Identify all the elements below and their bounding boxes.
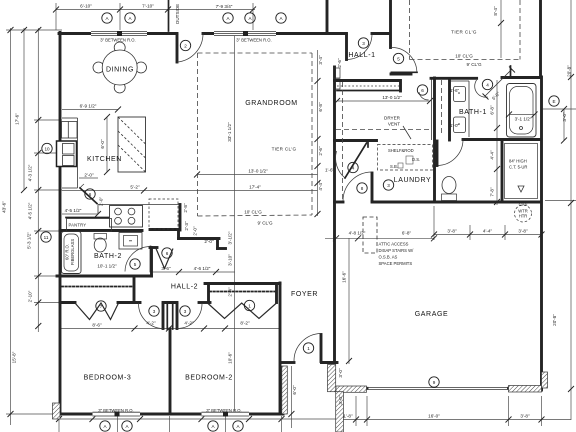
- svg-text:2'-0": 2'-0": [99, 197, 104, 207]
- svg-text:8'-4": 8'-4": [493, 6, 498, 16]
- svg-text:4'-2": 4'-2": [184, 321, 194, 326]
- svg-text:VENT: VENT: [388, 122, 400, 127]
- shower walls: [501, 141, 504, 203]
- svg-text:6'-8": 6'-8": [318, 102, 323, 112]
- 17'-4" line: [62, 190, 318, 192]
- svg-text:20'-8": 20'-8": [552, 314, 557, 326]
- svg-text:4'-5 1/2": 4'-5 1/2": [65, 208, 82, 213]
- dining table: [102, 50, 137, 85]
- door 3 bedroom-3: [162, 304, 165, 329]
- svg-text:3'-6": 3'-6": [161, 266, 171, 271]
- range 4 burners: [110, 206, 143, 228]
- svg-text:2'-10": 2'-10": [28, 290, 33, 302]
- svg-text:O.S.B. AS: O.S.B. AS: [379, 255, 398, 260]
- hall-1 13'-0 1/2" line: [337, 100, 430, 102]
- svg-text:7'-9 3/4": 7'-9 3/4": [216, 4, 233, 9]
- right exterior wall of bath/garage: [540, 77, 543, 390]
- kitchen island: [118, 117, 146, 172]
- top dim line: [56, 9, 255, 11]
- svg-text:KITCHEN: KITCHEN: [87, 156, 122, 163]
- svg-text:10'-1 1/2": 10'-1 1/2": [97, 264, 117, 269]
- garage mid dim line: [434, 234, 542, 236]
- foyer south wall: [282, 361, 295, 364]
- svg-text:9' CL'G: 9' CL'G: [257, 221, 272, 226]
- porch door dim line: [290, 366, 292, 428]
- door 5 bath-2: [125, 247, 151, 272]
- shower drain: [518, 186, 524, 192]
- laundry north walls: [335, 79, 401, 82]
- svg-text:3'-0": 3'-0": [338, 395, 343, 405]
- svg-text:BEDROOM-3: BEDROOM-3: [84, 375, 132, 382]
- bath-1 vanity: [448, 79, 451, 140]
- hall-1 walls: [326, 0, 329, 33]
- bath-2 south wall: [57, 275, 152, 278]
- svg-text:2'-3": 2'-3": [184, 221, 189, 231]
- svg-text:7'-8": 7'-8": [490, 187, 495, 197]
- svg-text:10'-6": 10'-6": [228, 352, 233, 364]
- door 1 front entry foyer: [320, 335, 323, 362]
- svg-text:HALL-1: HALL-1: [348, 52, 375, 59]
- pantry box: [67, 219, 112, 232]
- svg-text:2'-6": 2'-6": [318, 146, 323, 156]
- svg-text:6: 6: [166, 251, 169, 256]
- svg-text:17'-6": 17'-6": [15, 113, 20, 125]
- svg-text:4'-4": 4'-4": [490, 150, 495, 160]
- grandroom/garage divider wall: [333, 67, 336, 363]
- kitchen bottom counter: [98, 204, 180, 206]
- door 5 hall-1 east: [391, 71, 417, 73]
- tier ceiling dashed rectangle grandroom: [198, 52, 313, 54]
- door 4 bath-1 diagonal: [475, 80, 488, 97]
- svg-text:1'-0": 1'-0": [450, 123, 460, 128]
- svg-text:2'-6": 2'-6": [337, 58, 342, 68]
- interior vertical dim line grandroom center: [234, 35, 236, 412]
- bath-2 north wall (kitchen counter wall): [60, 229, 142, 232]
- bedroom door dim line: [60, 328, 281, 330]
- bedroom-2 closet box: [205, 282, 280, 285]
- door 1 closet bifold bedroom-2: [208, 303, 277, 319]
- svg-text:BATH-1: BATH-1: [459, 109, 487, 116]
- toilet room north wall bath-1: [463, 138, 541, 141]
- svg-text:ATTIC ACCESS: ATTIC ACCESS: [379, 242, 409, 247]
- svg-text:2'-4": 2'-4": [228, 287, 233, 297]
- svg-text:3" BETWEEN R.O.: 3" BETWEEN R.O.: [98, 408, 133, 413]
- svg-text:D.S.: D.S.: [412, 157, 420, 162]
- kitchen sink/dw dashed: [149, 199, 178, 229]
- bedroom-2 right wall: [279, 283, 282, 414]
- svg-text:13'-0 1/2": 13'-0 1/2": [248, 169, 268, 174]
- hall-2 nook walls: [150, 228, 177, 231]
- svg-text:6'-8": 6'-8": [402, 231, 412, 236]
- left exterior wall: [59, 33, 62, 415]
- svg-text:1: 1: [248, 303, 251, 308]
- svg-text:5'-2": 5'-2": [130, 185, 140, 190]
- svg-text:8: 8: [361, 186, 364, 191]
- laundry north counter wall: [335, 139, 377, 142]
- svg-text:6'-0": 6'-0": [292, 385, 297, 395]
- svg-text:84" HIGH: 84" HIGH: [509, 159, 527, 164]
- svg-text:3'-8": 3'-8": [520, 414, 530, 419]
- door 6 kitchen corner: [80, 188, 97, 204]
- svg-text:20'-8": 20'-8": [567, 65, 572, 77]
- svg-text:7'-10": 7'-10": [142, 4, 154, 9]
- door 3 bedroom-2: [176, 304, 179, 329]
- window grandroom top: [214, 31, 276, 36]
- svg-text:16'-0": 16'-0": [428, 414, 440, 419]
- door 4 laundry west diagonal: [345, 143, 367, 178]
- svg-text:LAUNDRY: LAUNDRY: [394, 177, 432, 184]
- bedroom3 closet box: [133, 277, 136, 303]
- 13'-0 1/2" grandroom line: [197, 174, 318, 176]
- svg-text:17'-4": 17'-4": [249, 185, 261, 190]
- top right 8'-4" line: [500, 0, 502, 58]
- svg-text:10' CL'G: 10' CL'G: [244, 210, 262, 215]
- svg-text:43'-6": 43'-6": [2, 201, 7, 213]
- svg-text:2'-0": 2'-0": [84, 173, 94, 178]
- svg-text:S.B.: S.B.: [390, 164, 398, 169]
- svg-text:DISAP STAIRS W/: DISAP STAIRS W/: [379, 248, 415, 253]
- svg-text:3'-0": 3'-0": [562, 112, 567, 122]
- attic access dashed box: [363, 217, 377, 253]
- svg-text:3'-8": 3'-8": [447, 229, 457, 234]
- svg-text:E: E: [552, 99, 555, 104]
- svg-text:OUTSIDE: OUTSIDE: [175, 4, 180, 24]
- window bedroom-3: [93, 412, 141, 417]
- door 7 closet bifold bedroom-3: [75, 303, 119, 320]
- bath-1 vertical chain: [496, 80, 498, 205]
- bath-2 east wall: [150, 248, 153, 277]
- svg-text:1'-8": 1'-8": [343, 414, 353, 419]
- right dim line: [570, 0, 572, 420]
- svg-text:2'-8": 2'-8": [183, 203, 188, 213]
- door 2 dining top: [176, 35, 179, 62]
- svg-text:60" R.O.: 60" R.O.: [65, 244, 70, 260]
- svg-text:1'-6": 1'-6": [450, 88, 460, 93]
- svg-text:6'-10": 6'-10": [80, 4, 92, 9]
- window dining (thin lines over wall): [91, 31, 147, 36]
- door 6 hall closet bifold V: [156, 249, 173, 269]
- laundry vent dashed line: [342, 82, 344, 200]
- svg-text:11: 11: [44, 235, 49, 240]
- svg-text:3: 3: [387, 183, 390, 188]
- bath-2 vanity: [119, 233, 142, 250]
- svg-text:5: 5: [397, 56, 400, 61]
- sw porch pier: [53, 403, 61, 419]
- svg-text:3" BETWEEN R.O.: 3" BETWEEN R.O.: [206, 408, 241, 413]
- door 3 hall-1: [347, 34, 373, 60]
- kitchen left counter: [77, 118, 79, 188]
- window bedroom-2: [202, 412, 250, 417]
- svg-text:8'-2": 8'-2": [240, 321, 250, 326]
- svg-text:HTR: HTR: [519, 214, 528, 219]
- svg-text:3'-4": 3'-4": [318, 55, 323, 65]
- door 8 laundry south: [371, 173, 374, 201]
- porch east strip / garage wall hatched: [328, 365, 336, 392]
- svg-text:13'-0 1/2": 13'-0 1/2": [382, 95, 402, 100]
- svg-text:8'-6": 8'-6": [92, 323, 102, 328]
- svg-text:16'-6": 16'-6": [342, 271, 347, 283]
- svg-text:4'-2": 4'-2": [146, 321, 156, 326]
- svg-text:6: 6: [421, 88, 424, 93]
- svg-text:FOYER: FOYER: [291, 291, 318, 298]
- svg-text:SPACE PERMITS: SPACE PERMITS: [379, 261, 413, 266]
- svg-text:2: 2: [184, 43, 187, 48]
- svg-text:3: 3: [362, 41, 365, 46]
- garage 16'-6" vertical dim: [348, 238, 350, 364]
- laundry washer dryer: [406, 156, 413, 164]
- svg-text:6'-8": 6'-8": [490, 105, 495, 115]
- svg-text:5: 5: [134, 262, 137, 267]
- svg-text:BATH-2: BATH-2: [94, 253, 122, 260]
- svg-text:6: 6: [89, 192, 92, 197]
- hall-2 dim line: [150, 271, 235, 273]
- svg-text:DRYER: DRYER: [384, 116, 401, 121]
- svg-text:9' CL'G: 9' CL'G: [466, 62, 481, 67]
- svg-text:BEDROOM-2: BEDROOM-2: [185, 375, 233, 382]
- svg-text:3'-1 1/2": 3'-1 1/2": [515, 117, 532, 122]
- svg-text:SHELF&ROD: SHELF&ROD: [388, 148, 414, 153]
- svg-text:7: 7: [100, 304, 103, 309]
- svg-text:FIBERGLASS: FIBERGLASS: [70, 239, 75, 266]
- porch west strip: [282, 366, 288, 414]
- bath-2 toilet: [94, 234, 107, 240]
- svg-text:10' CL'G: 10' CL'G: [455, 54, 473, 59]
- svg-text:GAS: GAS: [519, 202, 528, 207]
- bath-1 hall west wall: [433, 78, 436, 202]
- svg-text:DINING: DINING: [106, 67, 134, 74]
- svg-text:3'-8": 3'-8": [518, 229, 528, 234]
- bath-2 tub: [62, 232, 82, 274]
- interior vertical chain x=317.5: [317, 50, 319, 216]
- svg-text:4'-8 1/2": 4'-8 1/2": [349, 231, 366, 236]
- kitchen dims: [62, 109, 118, 111]
- svg-text:3'-0": 3'-0": [338, 368, 343, 378]
- svg-text:TIER CL'G: TIER CL'G: [451, 30, 477, 35]
- bottom garage dim line: [337, 419, 571, 421]
- bath-1 tub: [507, 84, 537, 138]
- svg-text:4: 4: [486, 82, 489, 87]
- water heater: [515, 205, 532, 222]
- svg-text:C.T. 5-UR: C.T. 5-UR: [509, 165, 527, 170]
- svg-text:33'-1 1/2": 33'-1 1/2": [227, 122, 232, 142]
- svg-text:10: 10: [44, 146, 50, 151]
- bedroom divider wall: [166, 303, 168, 330]
- garage north wall (laundry south): [335, 201, 344, 204]
- svg-text:TIER CL'G: TIER CL'G: [272, 147, 297, 152]
- svg-text:4'-3 1/2": 4'-3 1/2": [28, 164, 33, 181]
- svg-text:4'-4": 4'-4": [318, 181, 323, 191]
- svg-text:GRANDROOM: GRANDROOM: [245, 100, 297, 107]
- kitchen east stub wall: [179, 205, 182, 231]
- top exterior wall right of door 2: [203, 32, 326, 35]
- bottom window risers: [58, 416, 60, 432]
- dining chairs: [114, 42, 125, 53]
- pantry top wall at 218: [66, 217, 112, 219]
- shelf&rod dashed box laundry: [378, 145, 433, 171]
- bath-1 toilet: [442, 194, 457, 201]
- svg-text:4'-6 1/2": 4'-6 1/2": [194, 266, 211, 271]
- door into toilet room bath-1: [437, 140, 463, 166]
- garage attic dim line: [325, 237, 434, 239]
- range/oven unit left: [57, 141, 77, 167]
- svg-text:HALL-2: HALL-2: [171, 284, 198, 291]
- hall-2 south wall / closet fronts: [60, 301, 75, 304]
- top exterior wall left of door 2: [59, 32, 177, 35]
- svg-text:GARAGE: GARAGE: [415, 311, 449, 318]
- svg-text:1: 1: [307, 346, 310, 351]
- svg-text:2'-0": 2'-0": [193, 226, 198, 236]
- svg-text:3: 3: [184, 309, 187, 314]
- svg-text:4: 4: [352, 165, 355, 170]
- top right exterior wall: [539, 0, 542, 77]
- svg-text:3: 3: [153, 309, 156, 314]
- svg-text:9: 9: [433, 380, 436, 385]
- left dim lines: [10, 28, 12, 425]
- svg-text:6'-9 1/2": 6'-9 1/2": [80, 104, 97, 109]
- svg-text:15'-8": 15'-8": [12, 351, 17, 363]
- svg-text:4'-5 1/2": 4'-5 1/2": [28, 202, 33, 219]
- svg-text:3" BETWEEN R.O.: 3" BETWEEN R.O.: [236, 38, 271, 43]
- svg-text:PANTRY: PANTRY: [69, 223, 87, 228]
- svg-text:3'-10": 3'-10": [228, 254, 233, 266]
- bath-1 north wall: [431, 77, 477, 80]
- svg-text:3" BETWEEN R.O.: 3" BETWEEN R.O.: [100, 38, 135, 43]
- svg-text:3'-1/2": 3'-1/2": [228, 231, 233, 244]
- svg-text:5'-3 1/2": 5'-3 1/2": [27, 232, 32, 249]
- svg-text:1'-6": 1'-6": [325, 168, 335, 173]
- svg-text:6'-0": 6'-0": [100, 139, 105, 149]
- entry tier dashed: [409, 0, 411, 60]
- svg-text:2'-0": 2'-0": [204, 239, 214, 244]
- bottom exterior wall: [59, 413, 283, 416]
- svg-text:4'-4": 4'-4": [483, 229, 493, 234]
- dryer vent arrow: [403, 126, 411, 139]
- garage south wall: [336, 387, 367, 390]
